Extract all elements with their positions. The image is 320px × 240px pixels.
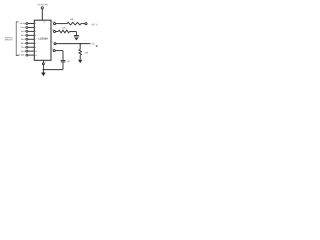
svg-text:1μF: 1μF	[67, 60, 71, 63]
svg-text:7: 7	[35, 38, 36, 41]
svg-text:8th d: 8th d	[21, 50, 25, 53]
svg-text:4: 4	[35, 26, 36, 29]
svg-text:4.5 TO 9V: 4.5 TO 9V	[37, 4, 48, 7]
svg-text:5th d: 5th d	[21, 38, 25, 41]
svg-text:7th d: 7th d	[21, 46, 25, 49]
svg-text:11: 11	[35, 54, 37, 57]
svg-text:6: 6	[35, 34, 36, 37]
svg-text:10: 10	[35, 50, 37, 53]
svg-text:6: 6	[52, 41, 53, 44]
svg-text:9: 9	[35, 46, 36, 49]
svg-text:3: 3	[35, 22, 36, 25]
svg-text:2nd d: 2nd d	[20, 26, 25, 29]
svg-text:0/P V: 0/P V	[91, 24, 98, 27]
svg-text:4th d: 4th d	[21, 34, 25, 37]
svg-text:8: 8	[35, 42, 36, 45]
svg-text:6th d: 6th d	[21, 42, 25, 45]
svg-text:INPUTS: INPUTS	[5, 38, 13, 41]
svg-text:5: 5	[35, 30, 36, 33]
svg-text:14: 14	[44, 21, 46, 24]
svg-text:3rd d: 3rd d	[21, 30, 26, 33]
svg-text:7: 7	[45, 60, 46, 63]
svg-text:2: 2	[52, 48, 53, 51]
svg-text:1st dig: 1st dig	[19, 22, 25, 25]
svg-text:13: 13	[52, 21, 54, 24]
svg-text:1M: 1M	[85, 52, 88, 55]
svg-text:4th digit: 4th digit	[17, 54, 24, 57]
svg-text:LS7220: LS7220	[39, 37, 49, 40]
svg-text:12: 12	[52, 29, 54, 32]
